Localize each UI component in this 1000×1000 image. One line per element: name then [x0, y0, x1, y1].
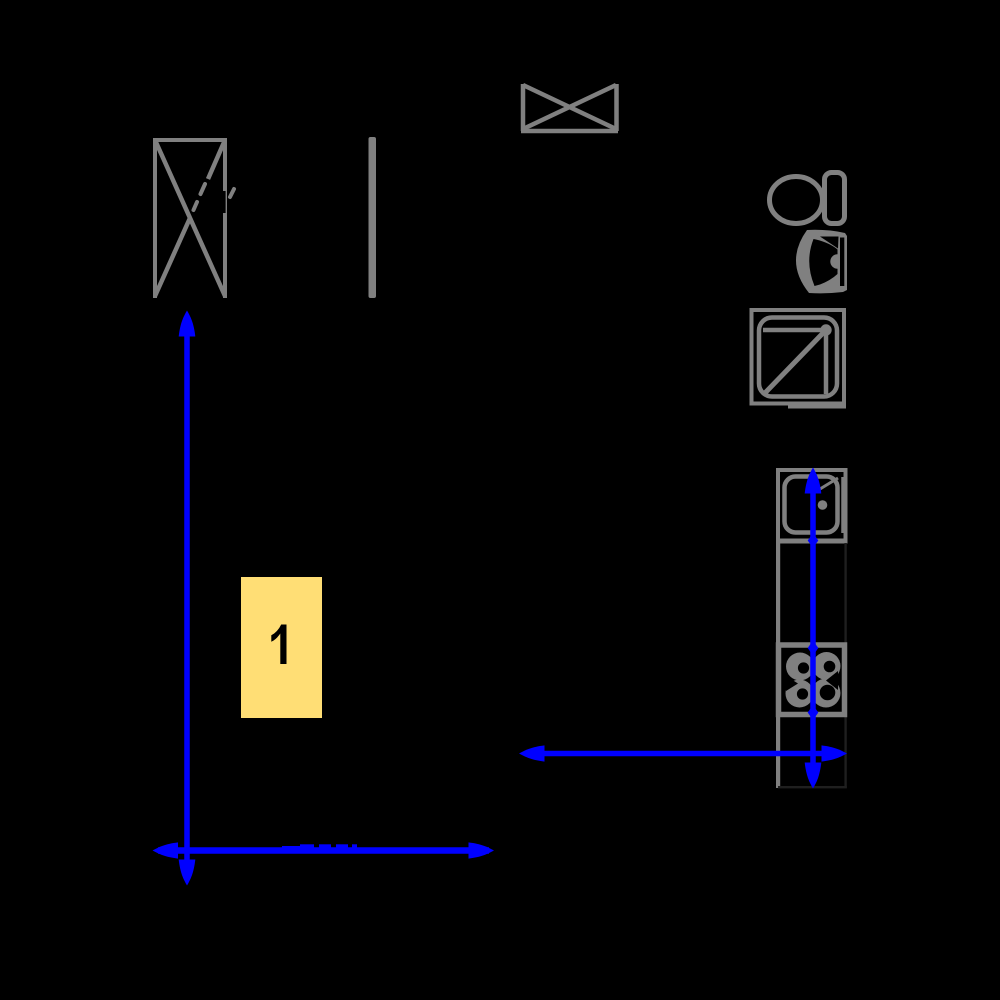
window W1 small dash right of frame [230, 189, 234, 197]
toilet tank [825, 173, 845, 224]
washbasin top sliver (black) [820, 237, 839, 249]
window W2 frame (bowtie, open top) [521, 84, 618, 131]
shower drain dot [820, 324, 831, 335]
window W1 right-edge gap [223, 191, 226, 213]
dim H1 line [158, 847, 489, 854]
stove left wedge [786, 676, 798, 691]
window W2 diagonal BL-TR [523, 85, 616, 129]
counter left edge [776, 543, 780, 788]
stove outer rect [779, 645, 845, 715]
washbasin faucet half-disc [830, 254, 837, 268]
kitchen sink drain dot [818, 500, 828, 510]
shower top pipe [763, 328, 826, 333]
stove interior black [785, 652, 839, 709]
shower inner rounded square [759, 318, 837, 397]
window W1 diagonal TL-BR [155, 140, 225, 296]
stove burner hole BR [820, 685, 836, 701]
kitchen sink divider line [841, 477, 844, 533]
dim V1 line [184, 318, 190, 880]
dim V1 arrow down [179, 860, 196, 886]
washbasin channel slot (black) [840, 238, 844, 287]
toilet bowl [770, 177, 823, 224]
room 1 yellow box [241, 577, 322, 718]
dim V2 diamond node 1 [808, 533, 819, 548]
dim H2 arrow right [822, 745, 848, 761]
shower bottom thick bar [788, 403, 846, 409]
dim H1 arrow left [153, 842, 179, 858]
kitchen sink unit outer rect [778, 470, 846, 541]
dim V2 line [810, 474, 816, 783]
dim H1 arrow right [469, 842, 495, 858]
dim V1 arrow up [179, 311, 196, 337]
dim H2 line [525, 751, 841, 757]
dim V2 diamond node 3 [808, 705, 819, 720]
room 1 label [271, 625, 286, 665]
stove burner TR [813, 652, 841, 680]
window W2 diagonal TL-BR [523, 85, 616, 129]
stove burner hole TL [798, 662, 809, 673]
stove burner hole BL [797, 688, 808, 699]
dim V2 diamond node 2 [808, 641, 819, 656]
stove burner TL [786, 653, 814, 681]
kitchen sink bowl [785, 477, 838, 533]
window W1 diagonal BL-TR (partly dashed) [155, 218, 190, 296]
dim V2 arrow up [805, 468, 822, 494]
stove burner BR [812, 679, 841, 708]
washbasin body [796, 230, 847, 294]
dim V2 arrow down [805, 763, 822, 789]
kitchen sink faucet diagonal [820, 478, 838, 489]
kitchen sink unit bottom thick edge [776, 539, 848, 544]
counter dark right edge upper [844, 543, 846, 644]
shower right pipe [824, 330, 829, 394]
counter dark bottom edge [778, 786, 847, 788]
washbasin inner basin (black) [809, 239, 837, 286]
dim H1 text bumps [282, 846, 300, 850]
shower outer square [752, 310, 845, 404]
stove burner BL [786, 680, 814, 708]
window W1 frame (tall, open bottom) [153, 138, 227, 298]
stove right wedge [826, 671, 838, 690]
shower diagonal [764, 332, 824, 394]
dim H2 arrow left [519, 745, 545, 761]
stove burner hole TR [824, 661, 836, 673]
wall segment [369, 137, 377, 298]
counter dark right edge lower [844, 717, 846, 788]
